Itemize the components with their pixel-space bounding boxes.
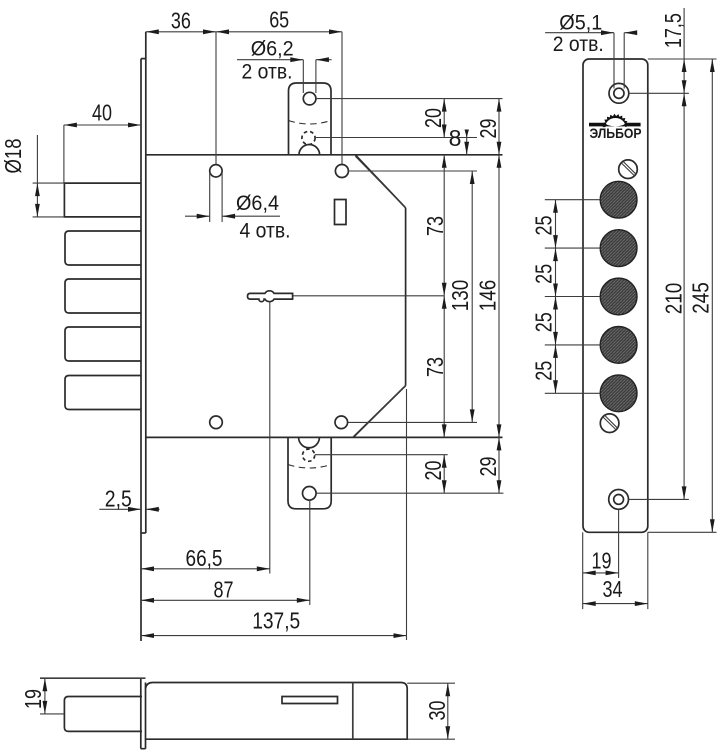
bottom tab hole vertical extension — [309, 500, 311, 605]
svg-text:Ø6,4: Ø6,4 — [236, 192, 279, 215]
svg-text:17,5: 17,5 — [660, 13, 686, 48]
dim column x=499 (29/146/29) — [498, 99, 500, 494]
bottom tab half-round notch — [299, 437, 320, 447]
dim 245 line — [711, 59, 713, 532]
dim 30 line — [447, 683, 449, 739]
lock body top-right chamfer — [355, 155, 405, 208]
lock body bottom-right chamfer — [353, 386, 405, 438]
dim Ø6,2 extension lines (tangents) — [302, 60, 304, 93]
side plate bottom edge extension — [648, 531, 717, 533]
bottom view plate top edge + 19 extension — [40, 677, 146, 679]
deadbolt 2 — [65, 231, 141, 265]
side plate top edge extension — [648, 58, 717, 60]
bottom tab dashed fold line — [288, 465, 331, 469]
dim 2,5 lines — [99, 508, 141, 510]
svg-text:30: 30 — [424, 701, 450, 721]
svg-text:4 отв.: 4 отв. — [240, 220, 291, 243]
bottom view faceplate bar — [141, 678, 146, 749]
bottom view internal partition — [352, 683, 354, 740]
faceplate top edge — [141, 58, 146, 60]
svg-text:25: 25 — [531, 264, 557, 284]
Ø6,4 hole (top-left of body) — [210, 165, 222, 177]
dim 137,5 line — [141, 635, 407, 637]
dim column x=444 (20/73/73/20) — [443, 99, 445, 138]
dim 40 line — [64, 124, 141, 126]
side faceplate outline — [583, 59, 648, 532]
extension line to hole center (x=216) — [215, 32, 217, 165]
bottom tab dashed hole — [303, 449, 315, 461]
svg-text:25: 25 — [531, 216, 557, 236]
svg-text:66,5: 66,5 — [186, 545, 223, 571]
deadbolt 1 (top, with dim extensions) — [64, 183, 141, 217]
svg-text:29: 29 — [475, 119, 501, 139]
dim Ø6,2 line — [237, 59, 303, 61]
hatched deadbolt circles — [600, 181, 637, 218]
bottom view slot — [282, 697, 338, 704]
bottom tab screw hole — [303, 487, 317, 501]
body hole top-right — [335, 165, 348, 178]
dim 130 line — [471, 171, 473, 422]
svg-text:73: 73 — [422, 357, 448, 377]
svg-text:19: 19 — [20, 689, 46, 709]
leader from body hole bottom — [348, 421, 477, 423]
extension line x=406.5 — [406, 389, 408, 640]
screw head 2 — [600, 414, 619, 433]
svg-text:146: 146 — [475, 280, 501, 312]
side plate bottom screw hole inner — [614, 495, 624, 505]
svg-text:25: 25 — [531, 312, 557, 332]
dim 25 column — [555, 200, 557, 394]
svg-text:8: 8 — [449, 125, 462, 151]
side plate right edge extension — [647, 532, 649, 609]
svg-text:65: 65 — [269, 7, 289, 33]
ELBOR logo bar — [589, 123, 641, 127]
dim 40 extension line — [63, 125, 65, 183]
dim 66,5 line — [141, 568, 270, 570]
diagonal line bottom — [353, 386, 405, 437]
deadbolt 3 — [65, 279, 141, 313]
leader from top tab hole — [316, 98, 503, 100]
extension line to hole center (x=342) — [341, 32, 343, 164]
dim Ø5,1 tangent extensions — [613, 33, 615, 89]
dim 19 (bottom view) line — [44, 678, 46, 714]
bottom view bolt — [64, 697, 142, 732]
top tab screw hole — [303, 92, 316, 105]
deadbolt 4 — [65, 327, 141, 361]
leader from top tab dashed hole — [315, 137, 477, 139]
svg-text:87: 87 — [214, 577, 234, 603]
dim 25 extension lines — [545, 199, 601, 201]
svg-text:2 отв.: 2 отв. — [242, 61, 293, 84]
dim Ø6,4 line — [185, 215, 210, 217]
dim Ø5,1 lines — [545, 32, 614, 34]
keyhole leader line — [293, 295, 445, 297]
svg-text:137,5: 137,5 — [252, 607, 300, 633]
svg-text:130: 130 — [447, 280, 473, 312]
top tab dashed fold line — [289, 121, 332, 125]
ELBOR logo crown — [602, 114, 628, 127]
svg-text:ЭЛЬБОР: ЭЛЬБОР — [590, 126, 642, 141]
dim Ø6,4 tangent extension lines — [209, 172, 211, 222]
svg-text:Ø6,2: Ø6,2 — [251, 38, 294, 61]
leader from side top hole — [629, 92, 689, 94]
leader from bottom tab screw hole — [316, 492, 503, 494]
svg-text:2 отв.: 2 отв. — [553, 33, 604, 56]
side plate top screw hole inner — [614, 88, 624, 98]
svg-text:20: 20 — [420, 108, 446, 128]
svg-text:Ø5,1: Ø5,1 — [559, 11, 602, 34]
lock body right edge — [405, 208, 407, 386]
side hole center extension — [618, 510, 620, 578]
faceplate front edge line — [140, 59, 142, 641]
body hole bottom-right — [335, 416, 348, 429]
dim 8 line — [466, 131, 468, 155]
leader from body hole top — [349, 170, 478, 172]
top strike tab outline — [289, 83, 332, 155]
faceplate back edge / lock left edge line — [145, 32, 147, 533]
dim column x=684 (17,5 / 210) — [683, 8, 685, 499]
dim 19 (side) line — [583, 572, 619, 574]
keyhole vertical extension — [269, 302, 271, 574]
svg-text:19: 19 — [592, 548, 612, 574]
svg-text:210: 210 — [661, 283, 687, 315]
svg-text:29: 29 — [475, 457, 501, 477]
dim 30 extensions — [407, 682, 455, 684]
svg-text:20: 20 — [420, 461, 446, 481]
dim 34 line — [583, 603, 648, 605]
dim Ø18 extension lines — [33, 182, 65, 184]
bottom strike tab outline — [288, 437, 331, 508]
svg-text:73: 73 — [422, 216, 448, 236]
dim Ø18 line — [36, 135, 38, 217]
svg-text:245: 245 — [688, 282, 714, 314]
top tab dashed hole — [302, 131, 315, 144]
svg-text:Ø18: Ø18 — [0, 139, 26, 174]
svg-text:36: 36 — [171, 8, 191, 34]
keyhole symbol — [248, 291, 293, 302]
side plate bottom screw hole outer — [609, 490, 629, 510]
top tab half-round notch at lock edge — [299, 145, 320, 155]
lock body top edge (extends right as extension line) — [146, 154, 503, 156]
screw head 1 — [619, 160, 638, 179]
side plate left edge extension — [582, 532, 584, 609]
lock body bottom edge (extends right as extension line) — [146, 436, 503, 438]
deadbolt 5 — [65, 376, 141, 410]
leader from side bottom hole — [629, 498, 689, 500]
diagonal line top — [355, 156, 405, 208]
svg-text:34: 34 — [603, 576, 623, 602]
dim 87 line — [141, 599, 310, 601]
bottom view body outline — [146, 683, 408, 740]
dim 36/65 shared line — [146, 31, 342, 33]
leader from bottom tab dashed hole — [315, 454, 448, 456]
side plate top screw hole outer — [609, 83, 629, 103]
faceplate bottom edge — [141, 532, 146, 534]
body hole bottom-left — [210, 416, 223, 429]
svg-text:40: 40 — [92, 100, 112, 126]
svg-text:25: 25 — [531, 361, 557, 381]
svg-text:2,5: 2,5 — [105, 486, 132, 512]
dim 19 (bottom view) extension to bolt center — [40, 713, 64, 715]
small rectangular opening — [335, 200, 347, 225]
